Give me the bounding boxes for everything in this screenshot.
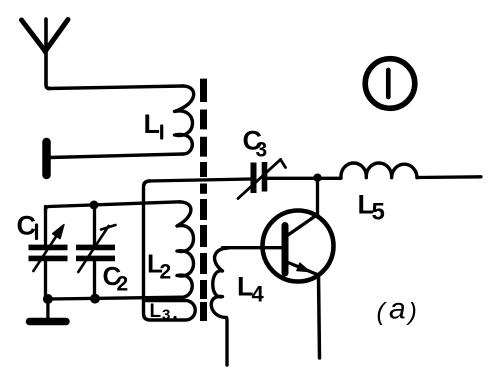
ground (antenna side thick bar) <box>42 142 51 175</box>
svg-text:2: 2 <box>160 261 172 284</box>
svg-text:3: 3 <box>162 307 170 324</box>
node collector junction <box>313 174 321 182</box>
svg-text:4: 4 <box>252 282 265 307</box>
wire L1 bottom to ground bar <box>50 154 184 158</box>
wire top rail C1-C2-L2 <box>46 202 181 211</box>
wire bottom rail to L2 <box>48 297 181 299</box>
inductor L1 <box>144 86 194 154</box>
svg-text:): ) <box>406 298 417 326</box>
wire main rail left (L3 corner to C3) <box>148 179 251 181</box>
svg-text:L: L <box>150 301 162 322</box>
wire base lead L4 to transistor <box>223 246 283 249</box>
node C2 bottom junction <box>90 294 100 304</box>
core (dashed ferrite rod) <box>200 79 207 321</box>
capacitor C3 <box>238 126 286 199</box>
capacitor C2 <box>76 205 128 299</box>
antenna <box>22 19 69 89</box>
svg-text:a: a <box>389 293 406 326</box>
svg-text:L: L <box>144 109 161 139</box>
inductor L3 (single-turn loop with lead to rail) <box>144 181 196 324</box>
marker I (circled) <box>365 59 415 109</box>
svg-text:3: 3 <box>256 139 268 162</box>
node C1 bottom junction <box>43 294 53 304</box>
inductor L5 <box>341 163 417 225</box>
inductor L2 <box>147 202 194 297</box>
svg-text:5: 5 <box>372 199 385 226</box>
ground (below C1) <box>30 299 67 322</box>
inductor L4 <box>211 248 264 365</box>
transistor Q1 <box>263 178 334 358</box>
svg-text:C: C <box>17 211 37 241</box>
svg-text:2: 2 <box>117 273 129 296</box>
capacitor C1 <box>17 207 68 300</box>
wire antenna to L1 top <box>48 86 183 89</box>
svg-text:(: ( <box>377 298 388 326</box>
wire main rail right of L5 <box>417 175 481 179</box>
node C2 top junction <box>90 201 99 210</box>
wire main rail C3 to L5 <box>268 177 342 180</box>
